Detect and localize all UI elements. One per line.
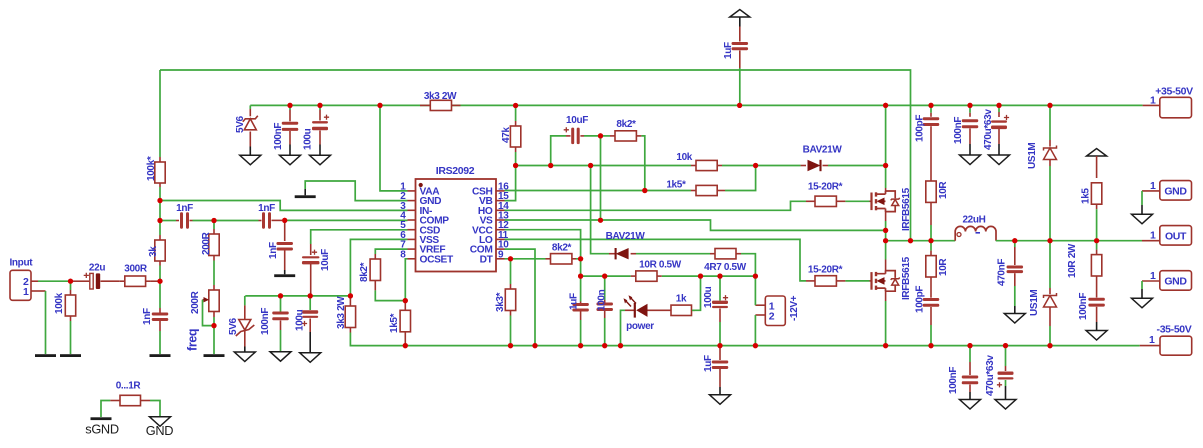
svg-text:10R 0.5W: 10R 0.5W — [639, 260, 682, 271]
resistor 0...1R ground link — [120, 395, 141, 405]
resistor 10R lower snubber — [930, 241, 932, 251]
capacitor 1uF below rail — [719, 346, 721, 360]
capacitor 100n VCC — [604, 276, 606, 300]
wire -12V pin2 — [755, 314, 765, 316]
svg-text:200R: 200R — [201, 231, 212, 255]
svg-text:1: 1 — [1149, 334, 1155, 346]
ground GND conn upper — [1132, 214, 1153, 224]
resistor 10R 2W zobel — [1096, 241, 1098, 250]
resistor 1k5 bleeder — [1096, 156, 1098, 178]
diode US1M upper — [1047, 103, 1052, 108]
ground GND 100nF upper — [280, 155, 301, 165]
capacitor 100u lower (polarized) — [309, 296, 311, 310]
pin 16 CSH — [496, 190, 505, 192]
ground GND link — [150, 417, 171, 427]
wire GND lower to ground — [1142, 280, 1160, 282]
wire -35-50V stub — [1140, 345, 1160, 347]
wire LO pin11 to lower gate resistor — [505, 239, 807, 281]
svg-text:-12V+: -12V+ — [789, 295, 800, 321]
svg-text:BAV21W: BAV21W — [606, 231, 646, 242]
capacitor 100nF lower left — [280, 296, 282, 312]
capacitor 1nF series B — [262, 212, 265, 229]
wire VSS pin6 down — [350, 239, 407, 296]
ground GND 470u bottom — [995, 400, 1016, 410]
svg-text:22uH: 22uH — [962, 215, 985, 226]
svg-text:3k3*: 3k3* — [495, 292, 506, 312]
resistor 3k3 2W on rail — [420, 104, 430, 106]
pin 1 VAA — [408, 190, 416, 192]
wire VAA pin1 up to rail — [380, 105, 408, 190]
wire COM pin10 down — [505, 249, 536, 346]
svg-text:1uF: 1uF — [569, 293, 580, 310]
wire DT pin9 net — [505, 258, 546, 260]
resistor 10R upper snubber — [926, 181, 936, 202]
svg-text:US1M: US1M — [1027, 143, 1038, 169]
resistor 8k2* bootstrap — [598, 133, 603, 138]
resistor 8k2* VREF — [374, 254, 376, 259]
svg-text:1nF: 1nF — [258, 203, 275, 214]
wire -12V pin1 — [755, 304, 765, 306]
svg-text:100u: 100u — [303, 128, 314, 150]
svg-text:470u*63v: 470u*63v — [983, 109, 994, 150]
wire VCC pin12 down — [505, 230, 581, 259]
pin 12 VCC — [496, 229, 505, 231]
svg-text:10uF: 10uF — [566, 115, 588, 126]
svg-text:1nF: 1nF — [142, 308, 153, 325]
capacitor 22u — [84, 0, 86, 281]
svg-text:GND: GND — [1164, 185, 1187, 197]
svg-text:DT: DT — [480, 254, 494, 265]
ground GND 100nF bottom — [960, 400, 981, 410]
svg-text:1: 1 — [1150, 230, 1156, 242]
capacitor 100pF upper snubber — [928, 103, 933, 108]
wire OCSET pin8 down — [405, 259, 407, 301]
capacitor 100nF top right — [967, 103, 972, 108]
connector OUT — [1160, 226, 1192, 246]
pin 7 VREF — [408, 248, 416, 250]
svg-text:100k*: 100k* — [146, 156, 157, 181]
capacitor 100u VCC supply (polarized) — [719, 276, 721, 300]
connector X1 Input — [10, 270, 31, 300]
svg-text:1k5: 1k5 — [1081, 188, 1092, 204]
zener diode 5V6 upper — [249, 105, 251, 109]
capacitor 1nF at input node — [159, 308, 161, 313]
capacitor 100pF lower snubber — [923, 298, 940, 301]
wire CSD pin5 to 10uF — [311, 230, 408, 244]
wire GND pin2 to sGND — [305, 181, 407, 201]
capacitor 100nF zobel — [1088, 298, 1105, 301]
svg-text:1uF: 1uF — [703, 355, 714, 372]
capacitor 1uF VCC — [580, 302, 582, 304]
connector GND upper — [1160, 181, 1192, 201]
capacitor 10uF bootstrap RC — [551, 136, 566, 166]
svg-text:8: 8 — [400, 249, 406, 260]
node bottom rail dots — [403, 343, 408, 348]
svg-text:1nF: 1nF — [176, 203, 193, 214]
svg-text:8k2*: 8k2* — [552, 243, 572, 254]
wire pot wiper loop — [203, 300, 215, 326]
connector GND lower — [1160, 271, 1192, 291]
ground GND 100u upper — [310, 155, 331, 165]
ground sGND near IC — [304, 189, 306, 195]
svg-text:-35-50V: -35-50V — [1157, 324, 1192, 336]
resistor 3k3 2W vertical — [349, 296, 351, 306]
pin 9 DT — [496, 258, 505, 260]
svg-text:3k3 2W: 3k3 2W — [424, 91, 457, 102]
pin 4 COMP — [408, 219, 416, 221]
resistor 10R 0.5W — [631, 275, 636, 277]
svg-text:BAV21W: BAV21W — [803, 145, 843, 156]
resistor 15-20R* upper gate — [806, 200, 815, 202]
capacitor 470u*63v bottom (polarized) — [1005, 346, 1007, 366]
resistor 1k LED — [648, 309, 672, 311]
inductor 22uH — [955, 226, 996, 240]
resistor 8k2* DT — [546, 258, 551, 260]
ground GND 100nF lower — [270, 352, 291, 362]
ground GND 100u lower — [300, 353, 321, 363]
ground sGND input — [35, 354, 56, 357]
pin 13 VS — [496, 219, 505, 221]
ground GND 470u top — [989, 155, 1010, 165]
svg-text:1k: 1k — [676, 294, 687, 305]
svg-text:100nF: 100nF — [948, 367, 959, 394]
junction dots overlay — [157, 198, 162, 203]
svg-text:IRS2092: IRS2092 — [436, 165, 475, 177]
svg-text:IRFB5615: IRFB5615 — [901, 187, 912, 231]
svg-text:2: 2 — [769, 310, 775, 322]
svg-text:100k: 100k — [54, 292, 65, 314]
pin 8 OCSET — [408, 258, 416, 260]
svg-text:1: 1 — [1150, 95, 1156, 107]
wire IN- to pin3 — [160, 201, 408, 211]
wire VS node to output — [885, 230, 887, 240]
resistor 100k input — [70, 281, 72, 290]
svg-text:8k2*: 8k2* — [616, 119, 636, 130]
zener diode 5V6 lower — [244, 296, 246, 306]
wire input pin2 stub — [31, 280, 38, 282]
svg-text:8k2*: 8k2* — [359, 262, 370, 282]
capacitor 100nF upper left — [287, 103, 292, 108]
svg-text:100nF: 100nF — [273, 123, 284, 150]
resistor 15-20R* lower gate — [806, 280, 815, 282]
diode US1M lower — [1049, 241, 1051, 288]
wire input row y=281 — [38, 280, 71, 282]
svg-text:10R: 10R — [938, 258, 949, 276]
capacitor 470u*63v top (polarized) — [996, 103, 1001, 108]
ground GND conn lower — [1132, 298, 1153, 308]
potentiometer 200R freq — [213, 285, 215, 290]
ground GND zener lower — [234, 352, 255, 362]
node IN- ladder dots — [157, 198, 162, 203]
diode BAV21W upper — [756, 165, 801, 167]
svg-text:100pF: 100pF — [915, 286, 926, 313]
resistor 10k — [691, 165, 696, 167]
svg-text:power: power — [626, 321, 654, 332]
svg-text:GND: GND — [146, 423, 173, 438]
capacitor 1nF at COMP to sGND — [284, 220, 286, 241]
ground GND 100nF top — [960, 155, 981, 165]
pin 5 CSD — [408, 229, 416, 231]
resistor 200R upper — [213, 221, 215, 230]
transistor Q1 IRFB5615 upper — [870, 200, 872, 202]
svg-text:3k3 2W: 3k3 2W — [336, 296, 347, 329]
capacitor 470nF output filter — [1014, 241, 1016, 247]
svg-text:4R7 0.5W: 4R7 0.5W — [704, 262, 747, 273]
wire VB pin15 link — [505, 166, 516, 201]
svg-text:5V6: 5V6 — [228, 317, 239, 335]
svg-text:22u: 22u — [89, 263, 105, 274]
resistor 4R7 0.5W — [710, 253, 715, 255]
svg-text:5V6: 5V6 — [235, 115, 246, 133]
IC U1 IRS2092 — [416, 179, 497, 272]
pin 3 IN- — [408, 209, 416, 211]
resistor 1k5* OCSET — [404, 301, 406, 311]
wire CSH pin16 — [505, 190, 692, 192]
resistor 3k — [159, 235, 161, 240]
ground sGND COMP — [284, 270, 286, 274]
svg-text:1: 1 — [23, 286, 29, 298]
svg-text:15-20R*: 15-20R* — [808, 182, 843, 193]
resistor 1k5* CSH — [691, 190, 696, 192]
diode BAV21W lower bootstrap — [591, 166, 609, 254]
ground GND zener upper — [240, 155, 261, 165]
svg-text:100n: 100n — [597, 289, 608, 311]
capacitor 1uF chassis — [739, 27, 741, 42]
ground GND 470nF — [1004, 314, 1025, 324]
wire COMP row y=220.5 — [160, 220, 176, 222]
resistor 3k3* DT — [510, 259, 512, 284]
connector -12V+ supply — [765, 296, 785, 326]
svg-text:9: 9 — [498, 249, 504, 260]
svg-text:47k: 47k — [501, 127, 512, 143]
resistor 100k* feedback — [159, 157, 161, 162]
resistor 300R — [120, 280, 125, 282]
wire +35-50V rail — [250, 104, 1142, 106]
pin 6 VSS — [408, 238, 416, 240]
svg-text:0...1R: 0...1R — [116, 381, 142, 392]
svg-text:Input: Input — [10, 258, 34, 269]
resistor 47k — [513, 103, 518, 108]
ground sGND 100k — [60, 354, 81, 357]
wire rail to top FET drain — [883, 103, 888, 108]
connector -35-50V — [1160, 336, 1192, 355]
pin 11 LO — [496, 238, 505, 240]
wire VB node row y=165.5 — [516, 165, 691, 167]
capacitor 10uF CSD — [310, 244, 312, 255]
wire OUT stub — [1142, 240, 1160, 242]
svg-text:GND: GND — [1164, 275, 1187, 287]
wire HO pin14 to gate resistor — [505, 201, 807, 210]
svg-text:200R: 200R — [190, 290, 201, 314]
svg-text:100nF: 100nF — [260, 308, 271, 335]
wire VS pin13 net — [505, 220, 886, 230]
capacitor 1nF series A — [180, 212, 183, 229]
LED power indicator — [621, 310, 626, 345]
wire input ladder x=160 — [159, 70, 161, 157]
wire GND upper to ground — [1142, 190, 1160, 192]
capacitor 100nF bottom right — [969, 346, 971, 362]
svg-text:US1M: US1M — [1029, 290, 1040, 316]
svg-text:100nF: 100nF — [1078, 293, 1089, 320]
svg-text:470u*63v: 470u*63v — [985, 355, 996, 396]
pin 2 GND — [408, 200, 416, 202]
svg-text:10uF: 10uF — [320, 249, 331, 271]
svg-text:10k: 10k — [676, 152, 692, 163]
svg-text:IRFB5615: IRFB5615 — [901, 256, 912, 300]
svg-text:1uF: 1uF — [723, 42, 734, 59]
transistor Q2 IRFB5615 lower — [870, 280, 872, 282]
wire output to OUT — [996, 240, 1142, 242]
svg-text:1k5*: 1k5* — [389, 313, 400, 333]
ground sGND pot — [204, 354, 225, 357]
svg-text:+35-50V: +35-50V — [1155, 86, 1193, 98]
svg-text:10R: 10R — [938, 181, 949, 199]
wire VCC node down + 1uF — [580, 259, 582, 302]
svg-text:15-20R*: 15-20R* — [808, 265, 843, 276]
wire VS to bootstrap mid — [600, 136, 602, 220]
ground sGND link — [91, 417, 112, 420]
svg-text:3k: 3k — [148, 246, 159, 257]
svg-text:10R 2W: 10R 2W — [1067, 243, 1078, 278]
supply arrow chassis 1uF — [730, 10, 750, 18]
pin 10 COM — [496, 248, 505, 250]
svg-text:100u: 100u — [703, 286, 714, 308]
ground GND 1uF — [710, 395, 731, 405]
svg-text:OCSET: OCSET — [420, 254, 454, 265]
svg-text:470nF: 470nF — [997, 259, 1008, 286]
capacitor 100u upper (polarized) — [317, 103, 322, 108]
wire VCC feed row y=276 — [581, 275, 631, 277]
svg-text:1nF: 1nF — [268, 242, 279, 259]
wire VREF pin7 to 8k2* — [375, 249, 407, 254]
ground GND zobel — [1086, 331, 1107, 341]
ground sGND 1nF — [150, 354, 171, 357]
supply arrow 1k5 — [1087, 149, 1107, 157]
wire output node — [886, 240, 956, 242]
wire input pin1 to sGND — [31, 290, 46, 292]
svg-text:100nF: 100nF — [953, 117, 964, 144]
connector +35-50V — [1160, 97, 1192, 118]
svg-text:freq: freq — [186, 329, 200, 351]
wire COM rail bottom — [351, 345, 1140, 347]
svg-text:OUT: OUT — [1165, 230, 1187, 242]
svg-text:1k5*: 1k5* — [666, 180, 686, 191]
wire +35-50V rail stub — [1143, 104, 1160, 106]
svg-text:sGND: sGND — [85, 422, 119, 437]
svg-text:300R: 300R — [124, 264, 148, 275]
pin 14 HO — [496, 209, 505, 211]
pin 15 VB — [496, 200, 505, 202]
wire VCC/zener row y=296 — [245, 295, 350, 297]
svg-text:100pF: 100pF — [915, 115, 926, 142]
wire feedback top (output to input ladder) — [160, 70, 911, 241]
svg-text:100u: 100u — [295, 309, 306, 331]
